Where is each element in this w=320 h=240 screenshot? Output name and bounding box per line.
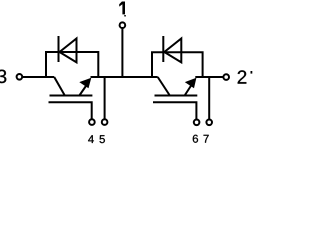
diode D1 cathode bar (58, 36, 60, 62)
pin 6 circle (194, 120, 200, 126)
terminal 3 circle (17, 74, 23, 80)
diode D2 cathode bar (162, 36, 164, 62)
diode D2 triangle (164, 39, 181, 63)
diode D1 loop (46, 52, 98, 78)
label 3 (0, 70, 6, 83)
wire bus node (91, 76, 158, 78)
pin 4 circle (89, 119, 95, 125)
pin 5 circle (102, 119, 108, 125)
label 1 (119, 2, 125, 15)
transistor Q2 emitter arrow (185, 78, 197, 88)
wire terminal 2 (195, 76, 223, 78)
transistor Q2 gate bar to pin 6 (153, 102, 196, 119)
transistor Q1 gate bar to pin 4 (49, 102, 92, 119)
label 4 (88, 135, 94, 143)
pin 7 circle (206, 120, 212, 126)
label 5 (100, 135, 105, 143)
terminal 1 circle (120, 22, 126, 28)
wire terminal 1 (121, 28, 123, 77)
transistor Q1 collector slope (54, 77, 65, 96)
transistor Q2 body bar (155, 95, 198, 97)
terminal 3 wire (22, 76, 54, 78)
diode D2 loop (152, 52, 203, 77)
label 7 (204, 135, 209, 143)
wire pin 5 (104, 77, 106, 119)
label 2 (238, 70, 247, 83)
wire pin 7 (208, 77, 210, 119)
diode D1 triangle (60, 39, 77, 63)
tick mark under 1 (124, 15, 126, 17)
transistor Q1 body bar (50, 95, 93, 97)
transistor Q2 collector slope (158, 77, 170, 96)
label 6 (193, 135, 198, 143)
transistor Q1 emitter arrow (79, 78, 91, 88)
transistor Q1 emitter line (79, 85, 87, 97)
terminal 2 circle (223, 74, 229, 80)
edge tick mark (250, 71, 252, 74)
transistor Q2 emitter line (184, 85, 192, 97)
